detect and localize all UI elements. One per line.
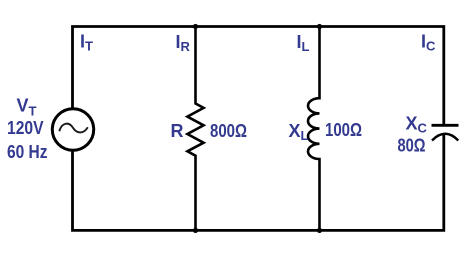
svg-text:80Ω: 80Ω [398,136,426,156]
svg-text:800Ω: 800Ω [210,121,247,141]
svg-text:60 Hz: 60 Hz [7,142,48,162]
svg-text:100Ω: 100Ω [325,120,362,140]
svg-text:R: R [171,121,184,141]
svg-text:120V: 120V [7,118,44,138]
